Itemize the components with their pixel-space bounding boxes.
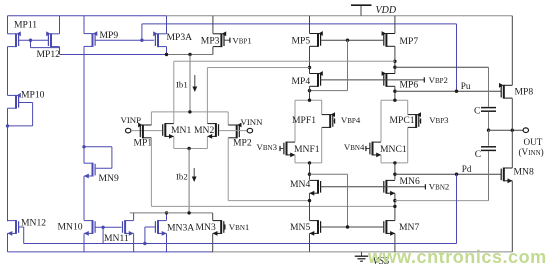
label MN8 xyxy=(514,166,534,177)
svg-text:MP12: MP12 xyxy=(37,49,61,60)
wire MP3 source lead xyxy=(212,16,214,34)
wire line2 MN2 drain to MP4 source xyxy=(207,67,309,69)
wire MP7 source lead xyxy=(394,16,396,34)
wire tail bottom row xyxy=(174,148,208,150)
terminal VBN4 tick xyxy=(365,146,367,151)
transistor MP2 xyxy=(228,123,241,139)
wire MNC1 source lead xyxy=(380,155,382,163)
wire MNF1 source lead xyxy=(294,155,296,163)
wire MN1 drain lead xyxy=(173,61,175,123)
wire bias line right xyxy=(167,54,213,56)
label MP3A xyxy=(167,32,193,43)
wire MP5 source lead xyxy=(309,16,311,34)
wire MP5 drain to MP4 source xyxy=(309,46,311,73)
transistor MN4 xyxy=(309,180,320,196)
wire blue net drop to Pu xyxy=(456,24,458,91)
wire MN1 source lead xyxy=(173,136,175,148)
wire MN3 drain lead xyxy=(212,213,214,221)
capacitor C1 xyxy=(481,108,496,112)
wire MNF1 drain lead xyxy=(294,100,296,142)
label MP2 xyxy=(233,138,252,149)
wire MP4 drain row xyxy=(310,90,348,92)
wire MP4 drain-gate tie riser xyxy=(347,40,349,90)
transistor MNF1 xyxy=(284,142,295,158)
transistor MP9 xyxy=(84,31,97,47)
label MN3 xyxy=(196,222,216,233)
label MN4 xyxy=(290,179,310,190)
wire MP12 source lead xyxy=(59,16,61,34)
node MP4 drain junction xyxy=(308,89,311,92)
wire MN6 source to MN7 drain xyxy=(394,193,396,220)
node FI-left top junction xyxy=(308,99,311,102)
label VINP xyxy=(121,115,142,125)
label MP9 xyxy=(100,30,119,41)
wire MN3A gate jog xyxy=(145,227,155,244)
svg-text:MN7: MN7 xyxy=(399,222,419,233)
transistor MN1 xyxy=(163,123,174,139)
transistor MN6 xyxy=(384,180,395,196)
node Ib1 top junction xyxy=(188,53,191,56)
wire FI-left bottom row xyxy=(295,162,322,164)
wire blue gate row xyxy=(24,243,457,245)
transistor MP5 xyxy=(310,31,323,47)
svg-text:MPF1: MPF1 xyxy=(292,115,316,126)
node folded node P left xyxy=(308,66,311,69)
power VDD symbol xyxy=(351,5,372,16)
wire FI-left to MN4 drain xyxy=(309,163,311,180)
transistor MP6 xyxy=(382,71,395,87)
svg-text:Ib2: Ib2 xyxy=(176,172,188,182)
wire MP8 source lead xyxy=(511,16,513,86)
label MP5 xyxy=(292,36,311,47)
svg-text:MP8: MP8 xyxy=(515,87,534,98)
node cascode gate bias junction xyxy=(346,39,349,42)
wire MN10-MN11 gate row xyxy=(95,226,122,228)
svg-text:MP9: MP9 xyxy=(100,30,119,41)
wire MP3 drain lead xyxy=(212,47,214,55)
svg-text:MN10: MN10 xyxy=(58,221,83,232)
transistor MN3A xyxy=(155,220,166,236)
svg-text:VBP1: VBP1 xyxy=(232,35,251,45)
svg-text:Ib1: Ib1 xyxy=(176,80,188,90)
node FI-right top junction xyxy=(393,99,396,102)
label MP12 xyxy=(37,49,61,60)
label MN11 xyxy=(104,233,129,244)
label OUT xyxy=(524,137,543,147)
wire MN2 drain lead xyxy=(206,68,208,124)
transistor MPC1 xyxy=(408,112,421,128)
wire VSS rail (bottom, main) xyxy=(213,251,512,253)
svg-text:VBN4: VBN4 xyxy=(344,142,365,152)
wire Ib2 feed xyxy=(188,149,190,213)
wire Pd row xyxy=(395,173,502,175)
terminal VBP2 tick xyxy=(423,77,425,82)
wire MN2 source lead xyxy=(206,136,208,148)
transistor MN10 xyxy=(84,220,95,236)
wire blue net horizontal xyxy=(142,23,457,25)
node FI-left bottom junction xyxy=(308,161,311,164)
svg-text:MP1: MP1 xyxy=(134,138,153,149)
label MP7 xyxy=(400,36,419,47)
svg-text:MP4: MP4 xyxy=(292,76,311,87)
svg-text:MP3: MP3 xyxy=(201,35,220,46)
wire FI-right top row xyxy=(381,99,408,101)
wire MP9 source lead xyxy=(83,16,85,34)
transistor MN12 xyxy=(7,220,18,236)
wire FI-left top row xyxy=(295,99,322,101)
wire MN8 drain lead xyxy=(511,130,513,168)
label VBP4 xyxy=(341,115,361,125)
wire gate row drop xyxy=(102,227,104,243)
transistor MP7 xyxy=(382,31,395,47)
label VBP2 xyxy=(429,75,448,85)
node MN3A gate junction xyxy=(143,242,146,245)
transistor MP4 xyxy=(310,71,323,87)
current arrow Ib2 xyxy=(192,168,197,182)
label MN7 xyxy=(399,222,419,233)
label MP1 xyxy=(134,138,153,149)
wire MP11 drain to MP10 source xyxy=(7,47,9,96)
label MP6 xyxy=(400,80,419,91)
transistor MP11 xyxy=(8,31,21,47)
wire MN9 gate loop xyxy=(84,147,112,169)
transistor MN2 xyxy=(207,123,218,139)
label MN1 xyxy=(171,125,191,136)
wire VDD rail (top, main) xyxy=(166,15,512,17)
wire MP9 drain to MN9 xyxy=(83,46,85,163)
wire cap2 top lead xyxy=(488,130,490,146)
wire MN4 drain-gate tie row xyxy=(310,173,348,175)
wire MNC1 drain lead xyxy=(380,100,382,142)
node MN5-MN7 gate junction xyxy=(346,225,349,228)
label Pu xyxy=(461,81,471,91)
label MN10 xyxy=(58,221,83,232)
transistor MP1 xyxy=(138,123,151,139)
node MN3A drain junction xyxy=(165,211,168,214)
wire MP2 source lead xyxy=(227,112,229,125)
wire mirror top row xyxy=(130,212,213,214)
node Ib2 bottom junction xyxy=(187,211,190,214)
label VBP3 xyxy=(429,115,449,125)
label MN12 xyxy=(21,218,46,229)
wire MP1 drain fold xyxy=(151,138,395,207)
wire MN12 source lead xyxy=(7,233,9,252)
wire blue gate row riser to Pd xyxy=(456,174,458,243)
label Pd xyxy=(462,164,472,174)
wire MPC1 drain lead xyxy=(407,128,409,163)
node cap1 tap junction xyxy=(393,66,396,69)
wire MP3 gate lead xyxy=(224,39,229,41)
terminal OUT xyxy=(523,128,528,133)
wire gate to MP12 drain tie xyxy=(31,40,60,47)
node MN9 drain-gate junction xyxy=(82,145,85,148)
label MP10 xyxy=(21,90,45,101)
node Pd blue junction xyxy=(455,173,458,176)
svg-text:MP7: MP7 xyxy=(400,36,419,47)
transistor MNC1 xyxy=(370,142,381,158)
wire MN5 source lead xyxy=(309,234,311,252)
wire VINN to gates xyxy=(219,130,247,132)
svg-text:MN5: MN5 xyxy=(290,222,310,233)
wire MNF1 gate lead xyxy=(281,148,284,150)
wire MN3 source lead xyxy=(212,234,214,252)
wire MN5-MN7 gate row xyxy=(321,226,384,228)
svg-text:www.cntronics.com: www.cntronics.com xyxy=(367,247,547,267)
svg-text:VDD: VDD xyxy=(376,5,397,16)
label MN6 xyxy=(400,176,420,187)
svg-text:VBP4: VBP4 xyxy=(341,115,361,125)
transistor MP12 xyxy=(46,31,59,47)
label MN5 xyxy=(290,222,310,233)
wire MN11 source lead xyxy=(133,234,135,252)
wire VDD rail (top, left blue segment) xyxy=(8,15,167,17)
label MN2 xyxy=(194,125,214,136)
wire MPF1 source lead xyxy=(321,100,323,114)
transistor MP3A xyxy=(153,31,166,47)
transistor MN11 xyxy=(123,220,134,236)
wire MP11 source lead xyxy=(7,16,9,34)
svg-text:MN9: MN9 xyxy=(99,173,119,184)
wire MP5-MP7 gate row xyxy=(321,39,384,41)
wire MN3A source lead xyxy=(166,234,168,252)
label Ib1 xyxy=(176,80,188,90)
svg-text:MNC1: MNC1 xyxy=(380,144,407,155)
net label VDD xyxy=(376,5,397,16)
label MP3 xyxy=(201,35,220,46)
transistor MN5 xyxy=(309,220,320,236)
wire MP9 gate wire xyxy=(95,39,154,41)
node MP10 gate-drain junction xyxy=(6,124,9,127)
wire MP10 gate loop xyxy=(8,103,33,126)
wire VSS rail (bottom, left blue segment) xyxy=(8,251,214,253)
label MP4 xyxy=(292,76,311,87)
wire MN12 gate jog xyxy=(19,227,24,244)
wire MPC1 source lead xyxy=(407,100,409,114)
transistor MP10 xyxy=(8,93,21,109)
capacitor C2 xyxy=(481,147,496,151)
svg-text:MPC1: MPC1 xyxy=(390,115,415,126)
wire MP8 drain lead xyxy=(511,98,513,130)
label MNC1 xyxy=(380,144,407,155)
svg-text:OUT: OUT xyxy=(524,137,543,147)
transistor MP8 xyxy=(499,83,512,99)
label Ib2 xyxy=(176,172,188,182)
label VBP1 xyxy=(232,35,251,45)
wire MPC1 gate lead xyxy=(419,120,420,122)
wire MNC1 gate lead xyxy=(367,148,370,150)
wire MN4 source to MN5 drain xyxy=(309,193,311,220)
node Ib2 tail junction xyxy=(187,147,190,150)
wire OUT row xyxy=(489,129,524,131)
svg-text:VBN3: VBN3 xyxy=(257,142,278,152)
wire Pu row xyxy=(395,90,501,92)
label VBN1 xyxy=(229,222,250,232)
wire MP3A source lead xyxy=(166,16,168,34)
label VBN3 xyxy=(257,142,278,152)
svg-text:MN4: MN4 xyxy=(290,179,310,190)
svg-text:(VINN): (VINN) xyxy=(519,147,544,157)
watermark www.cntronics.com xyxy=(367,247,547,267)
wire MP12 drain to bias line xyxy=(59,47,61,55)
node MN4 source junction xyxy=(308,199,311,202)
label MN9 xyxy=(99,173,119,184)
label MPC1 xyxy=(390,115,415,126)
svg-text:MN8: MN8 xyxy=(514,166,534,177)
wire MN4 drain-gate tie drop xyxy=(347,174,349,227)
label VBN2 xyxy=(429,182,450,192)
label C1 xyxy=(474,105,480,116)
wire MP3A drain lead xyxy=(166,47,168,55)
wire MP7 drain to MP6 source xyxy=(394,46,396,73)
wire MN3A drain lead xyxy=(166,213,168,221)
label VBN4 xyxy=(344,142,365,152)
node Ib1 tail junction xyxy=(188,110,191,113)
node cap OUT junction xyxy=(487,129,490,132)
wire MN8 source lead xyxy=(511,181,513,252)
wire bias line left (blue) xyxy=(60,54,168,56)
terminal VBN3 tick xyxy=(279,146,281,151)
transistor MN7 xyxy=(384,220,395,236)
wire MN9 source to MN10 drain xyxy=(83,176,85,220)
svg-text:VINN: VINN xyxy=(241,117,264,127)
wire VINP to gates xyxy=(131,130,162,132)
transistor MN8 xyxy=(501,168,512,184)
wire MP10 drain lead xyxy=(7,108,9,126)
svg-text:MP3A: MP3A xyxy=(167,32,193,43)
terminal VBP4 tick xyxy=(334,118,336,123)
transistor MP3 xyxy=(213,31,226,47)
ground VSS symbol xyxy=(355,252,368,261)
svg-text:MN3A: MN3A xyxy=(167,223,194,234)
node MP9 MP3A gate junction xyxy=(140,39,143,42)
svg-text:VBN1: VBN1 xyxy=(229,222,250,232)
label MPF1 xyxy=(292,115,316,126)
node MP8 MN8 drain junction xyxy=(511,129,514,132)
label VINN xyxy=(241,117,264,127)
terminal VBP1 tick xyxy=(229,38,231,43)
svg-text:MN11: MN11 xyxy=(104,233,129,244)
wire MP2 drain fold xyxy=(228,138,309,201)
terminal VINN xyxy=(247,128,252,133)
svg-text:C: C xyxy=(475,149,481,160)
wire MP6 drain lead xyxy=(394,86,396,100)
node MN6 source junction xyxy=(393,205,396,208)
node MP11 MP12 gate junction xyxy=(29,39,32,42)
node Pd drain junction xyxy=(393,173,396,176)
label OUT (VINN) xyxy=(519,147,544,157)
node FI-right bottom junction xyxy=(393,161,396,164)
terminal VBN1 tick xyxy=(224,224,226,229)
svg-text:MN3: MN3 xyxy=(196,222,216,233)
wire MP4 drain lead xyxy=(309,86,311,100)
svg-text:MN2: MN2 xyxy=(194,125,214,136)
svg-text:VBN2: VBN2 xyxy=(429,182,450,192)
wire cap2 bottom lead xyxy=(488,151,490,201)
node cap2 tap junction xyxy=(393,199,396,202)
wire MPF1 gate lead xyxy=(333,120,334,122)
svg-text:MNF1: MNF1 xyxy=(294,144,320,155)
svg-text:MP2: MP2 xyxy=(233,138,252,149)
wire blue net riser xyxy=(141,24,143,40)
svg-text:VBP3: VBP3 xyxy=(429,115,449,125)
svg-text:MN12: MN12 xyxy=(21,218,46,229)
wire tail top row xyxy=(151,111,228,113)
svg-text:MP6: MP6 xyxy=(400,80,419,91)
svg-text:MN6: MN6 xyxy=(400,176,420,187)
wire MP11-MP12 gate wire xyxy=(19,39,49,41)
wire MP4-MP6 gate row to VBP2 xyxy=(321,79,424,81)
terminal VBN2 tick xyxy=(424,184,426,189)
transistor MN3 xyxy=(213,220,224,236)
wire cap1 to OUT xyxy=(488,112,490,130)
node MP3A drain junction xyxy=(165,53,168,56)
wire MPF1 drain lead xyxy=(321,128,323,163)
wire MN3 gate lead xyxy=(223,226,226,228)
label C2 xyxy=(475,149,481,160)
label MNF1 xyxy=(294,144,320,155)
node line1 end junction xyxy=(393,60,396,63)
wire FI-right bottom row xyxy=(381,162,408,164)
terminal VBP3 tick xyxy=(420,118,422,123)
label MN3A xyxy=(167,223,194,234)
node MN10 MN11 gate junction xyxy=(101,226,104,229)
transistor MN9 xyxy=(84,163,95,179)
wire MP10 drain to MN12 drain xyxy=(7,126,9,221)
svg-text:MN1: MN1 xyxy=(171,125,191,136)
label MP8 xyxy=(515,87,534,98)
current arrow Ib1 xyxy=(192,75,197,92)
wire MP1 source lead xyxy=(150,112,152,125)
node Pu source junction xyxy=(393,90,396,93)
wire line1 MN1 drain to MP6 source xyxy=(174,60,395,62)
svg-text:Pd: Pd xyxy=(462,164,472,174)
wire MN4-MN6 gate row to VBN2 xyxy=(321,186,426,188)
svg-text:Pu: Pu xyxy=(461,81,471,91)
svg-text:VBP2: VBP2 xyxy=(429,75,448,85)
node Pu blue junction xyxy=(455,90,458,93)
wire MN7 source lead xyxy=(394,234,396,252)
svg-text:VINP: VINP xyxy=(121,115,142,125)
label MP11 xyxy=(14,20,37,31)
wire MN10 source lead xyxy=(83,234,85,252)
svg-text:MP5: MP5 xyxy=(292,36,311,47)
transistor MPF1 xyxy=(322,112,335,128)
wire cap2 row xyxy=(395,200,489,202)
wire MN11 drain lead xyxy=(133,213,135,221)
svg-text:C: C xyxy=(474,105,480,116)
svg-text:MP11: MP11 xyxy=(14,20,37,31)
node MN4 drain junction xyxy=(308,173,311,176)
net label VSS xyxy=(373,256,390,267)
svg-text:MP10: MP10 xyxy=(21,90,45,101)
wire cap1 feed xyxy=(395,67,489,106)
wire FI-right to MN6 drain xyxy=(394,163,396,180)
wire Ib1 feed xyxy=(189,55,191,112)
terminal VINP xyxy=(126,128,131,133)
